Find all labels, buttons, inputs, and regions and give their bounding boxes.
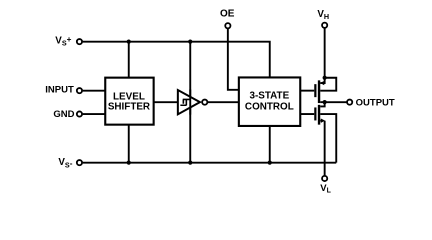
Q2 source stub	[320, 120, 322, 122]
transistor Q1 (top MOSFET)	[315, 80, 324, 103]
wire INPUT to level shifter	[83, 90, 106, 92]
Q2 arrow (points away from channel)	[321, 118, 325, 122]
wire inverter output to 3-state control	[207, 101, 239, 103]
wire Q2 body loop to VS- rail	[320, 114, 336, 163]
schmitt-trigger inverter U2	[178, 90, 200, 114]
terminal VL	[320, 176, 331, 195]
Q1 arrow (points into channel)	[320, 81, 324, 85]
terminal OUTPUT	[347, 97, 395, 108]
wire vertical over inverter	[189, 89, 191, 114]
wire GND to level shifter	[83, 113, 106, 115]
node junction on VS+ rail at level shifter	[127, 40, 131, 44]
terminal GND	[53, 109, 82, 120]
node junction on VS- rail at 3-state column	[268, 161, 272, 165]
wire VS- bottom rail	[83, 162, 337, 164]
wire level-shifter top tap	[128, 42, 130, 78]
svg-text:INPUT: INPUT	[45, 85, 74, 96]
wire level shifter bottom tap	[128, 125, 130, 163]
Q1 channel bar	[318, 80, 320, 103]
wire 3-state to Q2 gate	[300, 113, 314, 115]
node junction at output	[323, 100, 327, 104]
level shifter box U1	[105, 78, 153, 125]
wire vertical through inverter	[189, 42, 191, 163]
node junction on VS+ rail at inverter column	[188, 40, 192, 44]
wire output node to OUTPUT terminal	[325, 101, 348, 103]
node junction on VS- rail at level shifter	[127, 161, 131, 165]
wire 3-state to Q1 gate	[300, 90, 314, 92]
terminal VS+	[55, 35, 82, 47]
wire Q2 source down to VL	[324, 121, 326, 176]
wire VH down to Q1	[324, 28, 326, 77]
terminal VH	[317, 9, 329, 28]
wire Q1 body loop	[320, 78, 336, 91]
wire level shifter to inverter	[154, 101, 177, 103]
node junction at VH / Q1 source	[323, 76, 327, 80]
wire output node down to Q2 drain	[320, 102, 324, 106]
transistor Q2 (bottom MOSFET)	[315, 105, 325, 125]
inverter output bubble	[202, 100, 207, 105]
wire OE down and into 3-state control	[228, 29, 239, 90]
svg-text:3-STATE: 3-STATE	[250, 91, 290, 102]
terminal INPUT	[45, 85, 82, 96]
Q1 gate bar	[314, 84, 316, 97]
wire Q1 drain to output node	[320, 101, 324, 103]
wire Q1 source up	[320, 78, 324, 83]
node junction on VS- rail at inverter column	[188, 161, 192, 165]
3-state control box U3	[239, 77, 300, 126]
Q2 gate bar	[314, 107, 316, 120]
svg-text:SHIFTER: SHIFTER	[108, 102, 150, 113]
hysteresis symbol	[180, 99, 190, 105]
Q2 channel bar	[318, 105, 320, 125]
svg-text:OE: OE	[220, 9, 235, 20]
terminal OE	[220, 9, 235, 29]
wire VS+ top rail	[83, 42, 270, 79]
terminal VS-	[58, 157, 82, 169]
svg-text:OUTPUT: OUTPUT	[356, 97, 395, 108]
svg-text:GND: GND	[53, 109, 74, 120]
svg-text:CONTROL: CONTROL	[245, 101, 294, 112]
wire 3-state control bottom tap	[269, 126, 271, 163]
